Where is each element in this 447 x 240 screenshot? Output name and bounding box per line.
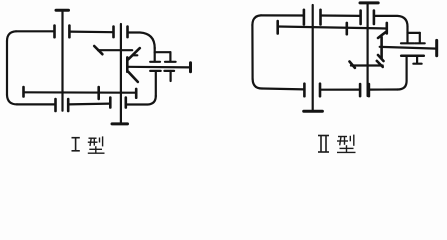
housing top-left corner arc [7,31,16,41]
bearing foot upper-right of output shaft [165,61,176,63]
bearing tick top wall left pair B [112,27,115,38]
shaft A top coupling cap [56,9,69,12]
housing top wall segment 3 + top-right corner arc [129,33,155,49]
gear cap left end [22,87,25,97]
gear cap middle (mesh) [97,87,100,99]
gear pair line (big gear + pinion) [278,27,387,29]
gear pair line (big gear + pinion) [24,91,137,94]
bearing lower-right stem [170,71,172,81]
gear cap right end [135,89,138,98]
bearing bump top line [155,51,171,53]
bearing tick bottom wall right pair B [125,98,128,108]
housing bottom wall segment 3 + bottom-right corner arc [126,96,156,105]
label Chinese character xing (type) for I [88,136,105,153]
bevel wheel line on shaft B [98,49,132,51]
gear cap middle (mesh) [345,23,348,34]
housing top wall segment 3 + top-right corner arc [374,16,407,27]
shaft B top coupling cap [360,1,378,4]
bearing stem below-right [416,56,418,63]
gear cap left end [276,21,279,34]
housing bottom wall segment 1 [262,87,304,90]
bearing tick bottom wall left pair B [109,98,112,108]
bevel pinion top cone line [378,32,386,38]
bearing tick bottom wall left pair A [54,99,57,111]
gear cap right end [385,23,388,34]
input shaft horizontal [380,47,437,49]
housing top wall segment 1 [261,14,304,16]
housing left wall [6,41,8,95]
housing top-left corner arc [252,15,261,25]
bevel wheel left slant mark [350,62,355,68]
bearing tick bottom wall left pair B [359,84,362,96]
bearing bump right stem [419,33,421,43]
bearing tick top wall left pair A [53,26,56,38]
bearing tick top wall left pair A [303,10,306,25]
bevel wheel line on shaft B [351,64,383,66]
bevel pinion top cone line [128,48,140,59]
bearing tick bottom wall right pair B [368,84,371,96]
bearing bar lower-right of output shaft [164,70,174,72]
housing bottom wall segment 1 [17,103,55,105]
housing bottom wall segment 2 [320,88,360,90]
shaft A bottom coupling cap [304,110,323,113]
bearing foot upper-left of output shaft [150,61,160,63]
output shaft horizontal [127,66,190,69]
bearing foot below-right [413,63,421,65]
housing left wall [251,25,253,79]
label II (roman numeral) [318,136,329,153]
bearing foot upper-right of input shaft [415,42,425,44]
housing top wall segment 1 [16,30,54,32]
bearing tick top wall right pair B [126,27,129,38]
bevel pinion bottom cone line [378,55,384,61]
bearing tick bottom wall right pair A [67,99,70,111]
shaft A vertical [61,12,63,111]
housing right wall lower + bottom-right corner arc [398,56,407,90]
bearing bump right stem [169,52,171,61]
shaft A vertical [312,5,314,110]
bearing bar lower-left of output shaft [150,70,161,72]
housing bottom-left corner arc [253,79,262,89]
shaft B vertical [120,24,122,123]
bearing tick top wall left pair B [359,11,362,25]
label Chinese character xing (type) for II [337,135,356,153]
bevel pinion back face [126,57,129,71]
bevel wheel right slant mark [377,61,383,67]
bearing bump top line [408,32,420,34]
bevel pinion hub dash [134,54,138,56]
housing right wall upper [406,27,408,43]
bearing tick top wall right pair A [319,10,322,25]
input shaft coupling cap [435,40,438,55]
housing top wall segment 2 [70,31,114,34]
shaft B vertical [367,4,369,96]
bearing tick bottom wall left pair A [303,84,306,97]
output shaft coupling cap [189,63,192,72]
bearing bar below input shaft [401,55,424,58]
shaft B bottom coupling cap [112,122,128,125]
bearing foot upper-left of input shaft [401,42,414,44]
label I (roman numeral) [72,138,80,151]
housing right wall lower [155,71,157,96]
bevel wheel left slant mark [94,46,102,54]
bearing tick bottom wall right pair A [319,84,322,97]
housing bottom-left corner arc [7,95,17,104]
bevel pinion back face [380,37,383,58]
bearing tick top wall right pair B [373,11,376,25]
bearing tick top wall right pair A [68,26,71,38]
housing bottom wall segment 2 [68,102,110,105]
housing top wall segment 2 [321,14,361,17]
housing bottom wall segment 3 [369,88,397,90]
housing right wall upper [154,48,156,61]
bevel pinion bottom cone line [128,72,138,82]
